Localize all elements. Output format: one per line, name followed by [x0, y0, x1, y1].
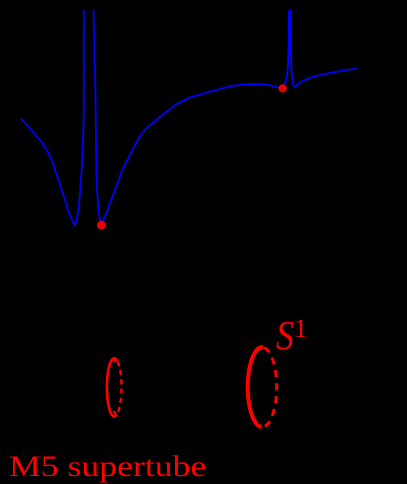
M5 supertube circle: solid left arc — [107, 358, 117, 416]
wire: merged top bar of right pole spike — [289, 10, 291, 22]
S1 circle: solid left arc — [248, 347, 263, 427]
wire: blue curve left branch and left pole left side — [21, 10, 84, 225]
label: S of S^1 — [276, 315, 294, 356]
node: red dot at right pole (supertube location) — [278, 84, 286, 92]
node: red dot at left pole (supertube location) — [97, 221, 106, 230]
S1 circle: dashed right arc — [263, 348, 277, 427]
M5 supertube circle: dashed right arc — [118, 361, 122, 413]
label: M5 supertube — [9, 452, 206, 482]
M5 supertube circle: bottom arrowhead — [112, 411, 118, 418]
label: superscript 1 of S^1 — [294, 316, 307, 342]
M5 supertube circle: top arrowhead — [113, 357, 118, 363]
wire: right pole right side and right branch — [290, 10, 357, 87]
wire: left pole right side, middle branch, right pole left side — [93, 10, 289, 225]
